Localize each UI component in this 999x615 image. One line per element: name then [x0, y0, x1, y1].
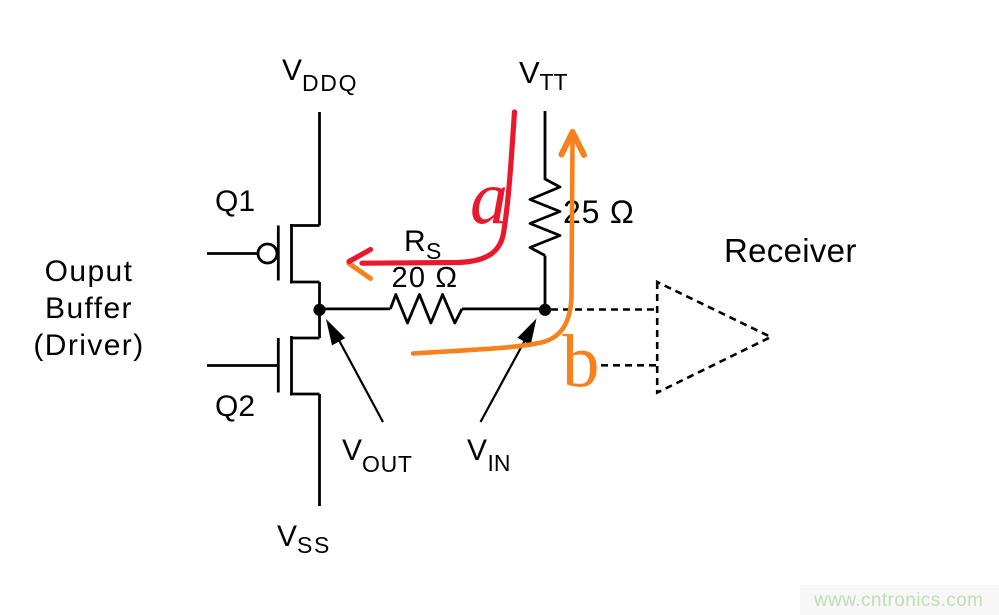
label RS: [404, 225, 441, 264]
svg-text:20 Ω: 20 Ω: [392, 262, 459, 294]
resistor RS 20 ohm: [390, 295, 462, 324]
svg-text:Q2: Q2: [215, 390, 255, 423]
node VIN junction dot: [539, 304, 551, 316]
svg-text:b: b: [562, 321, 600, 404]
svg-text:a: a: [470, 156, 508, 240]
svg-text:OUT: OUT: [362, 451, 413, 477]
node label VIN text: [467, 434, 511, 476]
svg-text:V: V: [519, 55, 540, 90]
svg-text:Ouput: Ouput: [45, 255, 134, 288]
wire node VOUT to Q2 drain: [318, 310, 321, 338]
wire Q1 source to node VOUT: [318, 282, 321, 310]
svg-text:V: V: [277, 520, 297, 553]
node label VIN arrow: [481, 319, 537, 423]
resistor RT 25 ohm (vertical): [530, 179, 560, 256]
wire resistor RT to node VIN: [544, 256, 547, 311]
wire node VOUT to resistor RS: [320, 307, 391, 310]
wire dashed node VIN to receiver input: [551, 308, 657, 311]
node label VOUT text: [342, 434, 413, 477]
power label VTT: [519, 55, 568, 95]
svg-text:R: R: [404, 225, 426, 258]
svg-text:www.cntronics.com: www.cntronics.com: [813, 590, 983, 611]
svg-text:V: V: [282, 54, 302, 87]
wire VDDQ rail: [318, 112, 321, 226]
watermark background: [800, 585, 999, 615]
power label VDDQ: [282, 54, 358, 96]
current path a red curve with left arrow: [349, 112, 515, 263]
node VOUT junction dot: [313, 304, 325, 316]
svg-text:(Driver): (Driver): [33, 329, 144, 362]
wire Q2 source to VSS: [318, 394, 321, 506]
transistor Q2 (NMOS): [207, 336, 320, 396]
svg-text:TT: TT: [540, 69, 568, 95]
wire resistor RS to node VIN: [462, 307, 545, 310]
svg-text:Q1: Q1: [215, 185, 255, 218]
svg-text:IN: IN: [488, 450, 511, 476]
svg-text:V: V: [342, 434, 362, 467]
svg-text:DDQ: DDQ: [302, 70, 358, 96]
svg-text:Receiver: Receiver: [724, 232, 857, 269]
op-amp U1 receiver (dashed triangle): [657, 282, 771, 393]
svg-text:SS: SS: [297, 532, 331, 558]
wire VTT rail: [544, 111, 547, 180]
current path b orange curve with up arrow: [413, 132, 584, 354]
current path b orange barb under red arrowhead: [349, 264, 371, 279]
svg-text:V: V: [467, 434, 487, 467]
transistor Q1 (PMOS): [207, 224, 320, 284]
power label VSS: [277, 520, 331, 558]
node label VOUT arrow: [326, 319, 383, 422]
wire dashed receiver lower input: [601, 364, 657, 367]
svg-text:Buffer: Buffer: [45, 292, 133, 325]
label Output Buffer (Driver): [33, 255, 144, 362]
